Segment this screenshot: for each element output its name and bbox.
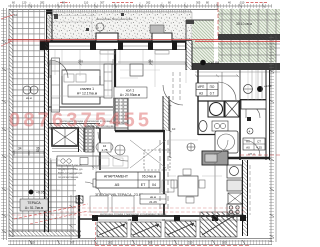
svg-text:К: К: [97, 26, 99, 30]
extension thin lines for density: [14, 8, 268, 190]
svg-text:А0: А0: [246, 146, 250, 150]
comb ticks under top edge: [48, 10, 192, 13]
svg-text:34: 34: [162, 218, 166, 222]
svg-text:АП 4: АП 4: [248, 152, 255, 156]
svg-text:неполиран борд настилка: неполиран борд настилка: [96, 17, 132, 21]
radiators under windows: [100, 51, 115, 55]
red line under stipple: [8, 39, 218, 41]
wardrobe bedroom: [52, 58, 60, 112]
svg-text:СТ: СТ: [257, 140, 261, 144]
red vertical: [217, 2, 219, 40]
svg-text:310: 310: [30, 241, 35, 245]
svg-text:305: 305: [148, 241, 153, 245]
bed bedroom1: [62, 70, 100, 104]
tiny dimension numbers: [14, 13, 176, 153]
terrace tile grid bottom-left extension: [45, 158, 76, 232]
svg-text:2.78: 2.78: [102, 148, 108, 152]
svg-text:310: 310: [188, 241, 193, 245]
svg-text:307: 307: [70, 241, 75, 245]
svg-text:21.26: 21.26: [149, 200, 157, 204]
svg-text:262: 262: [108, 241, 113, 245]
level dot: [29, 190, 34, 195]
kitchen counter dark: [202, 151, 228, 165]
stipple texture band top: [47, 12, 192, 39]
east wall vertical (hatched): [186, 41, 192, 70]
dark band below green: [190, 63, 280, 70]
bath walls: [197, 70, 199, 135]
dimension chain inside bedroom/living with slashes: [47, 63, 187, 158]
level dot top right: [200, 60, 206, 66]
svg-text:АПАРТАМЕНТ: АПАРТАМЕНТ: [104, 175, 129, 179]
svg-text:34: 34: [18, 147, 22, 151]
dimension chains inside: [48, 59, 239, 155]
svg-text:спалня 1: спалня 1: [80, 87, 94, 91]
svg-text:ТЕРАСА: ТЕРАСА: [27, 201, 41, 205]
west interior wall: [45, 41, 49, 232]
corner wall bottom-left of hatch: [78, 195, 80, 238]
svg-text:265: 265: [78, 60, 83, 64]
bottom wall columns: [92, 215, 246, 221]
svg-text:А= 51.7кв.м: А= 51.7кв.м: [25, 206, 44, 210]
wall above elevator: [48, 124, 100, 129]
svg-text:0876375455: 0876375455: [9, 110, 152, 132]
circle symbols right: [244, 85, 253, 94]
wall columns: [40, 41, 192, 50]
top ruler: [8, 5, 272, 7]
svg-text:160: 160: [222, 241, 227, 245]
stair treads right of elevator: [85, 126, 94, 152]
svg-text:0.7: 0.7: [210, 92, 215, 96]
svg-text:кв.м: кв.м: [150, 195, 156, 199]
dashed vertical lines: [160, 140, 168, 212]
stair core walls: [48, 106, 113, 108]
right ruler: [271, 35, 276, 242]
two storage rects bottom-center: [90, 196, 108, 212]
svg-text:10: 10: [172, 127, 176, 131]
svg-text:А= 20.93кв.м: А= 20.93кв.м: [120, 93, 141, 97]
wall between tile terrace and stipple band: [47, 9, 53, 42]
red dashes bottom: [60, 207, 246, 209]
top roof edge line: [9, 9, 218, 11]
window box 1: [96, 33, 118, 41]
svg-text:ПО: ПО: [210, 85, 215, 89]
diag X living: [130, 140, 166, 168]
АП table right: [243, 138, 265, 150]
right room extras: [241, 100, 266, 109]
corridor walls center: [115, 130, 165, 133]
wall between bedroom and living: [114, 49, 116, 96]
bench near dining: [96, 156, 128, 168]
red dashed line top: [112, 2, 133, 4]
right wing east wall: [266, 70, 270, 160]
elevator shaft: [52, 128, 84, 152]
kitchenette counter below elevator: [57, 156, 99, 166]
svg-text:кв.м: кв.м: [26, 96, 32, 100]
kitchen column: [227, 165, 242, 215]
svg-text:+0.05: +0.05: [36, 191, 45, 195]
svg-text:282: 282: [40, 1, 45, 5]
svg-text:95.24кв.м: 95.24кв.м: [142, 175, 156, 179]
door arcs: [50, 60, 68, 78]
svg-text:по изчисление: по изчисление: [58, 175, 79, 179]
svg-text:А5: А5: [115, 183, 120, 187]
extension lines to top ruler: [2, 2, 263, 231]
bottom outer hatched wall strip: [9, 231, 81, 236]
terrace label: [20, 199, 48, 211]
right corridor door arcs: [246, 104, 260, 118]
small rect living: [130, 64, 143, 76]
svg-text:А= 12.17кв.м: А= 12.17кв.м: [77, 92, 98, 96]
faint lines in stipple band: [48, 12, 96, 40]
svg-text:жилищна сграда с магазини и по: жилищна сграда с магазини и подземни гар…: [100, 212, 167, 216]
red diag bottom-left: [14, 204, 88, 219]
bath fixtures: [208, 101, 224, 117]
stipple band marks: [54, 13, 164, 33]
dimension arrows in tile terrace: [14, 151, 44, 156]
ИРП table: [196, 83, 218, 96]
svg-text:ИРП: ИРП: [198, 85, 205, 89]
svg-text:04: 04: [152, 183, 156, 187]
dining circles: [96, 143, 104, 151]
left ruler: [4, 8, 7, 240]
label bedroom1: [68, 85, 106, 97]
svg-text:78: 78: [128, 218, 132, 222]
svg-text:307: 307: [100, 1, 105, 5]
bottom ruler: [8, 241, 272, 245]
left outer hatched wall strip: [9, 9, 13, 237]
wardrobe right of bedroom: [104, 64, 112, 98]
svg-text:120: 120: [22, 1, 27, 5]
svg-text:4.25: 4.25: [256, 146, 262, 150]
svg-text:+9.60: +9.60: [264, 84, 272, 88]
svg-text:330: 330: [148, 60, 153, 64]
svg-text:305: 305: [196, 1, 201, 5]
svg-text:36: 36: [36, 147, 40, 151]
label living: [114, 87, 147, 98]
tiny gray annotation texts: [58, 17, 167, 216]
window box 2: [152, 33, 172, 41]
svg-text:хол 1: хол 1: [126, 89, 134, 93]
svg-text:ЕТ: ЕТ: [141, 183, 146, 187]
bathtub: [215, 131, 238, 153]
apartment stats table: [96, 172, 160, 188]
svg-text:310: 310: [240, 1, 245, 5]
svg-text:10: 10: [14, 13, 18, 17]
svg-text:262: 262: [146, 1, 151, 5]
north wall of apartment: [40, 42, 192, 50]
svg-text:А3: А3: [199, 92, 203, 96]
stair treads upper: [114, 98, 121, 124]
bottom wall of apartment: [96, 215, 244, 217]
svg-text:+10.08: +10.08: [208, 61, 219, 65]
table with chairs on terrace: [23, 86, 31, 94]
small table left bottom: [140, 194, 166, 204]
svg-text:110: 110: [84, 1, 89, 5]
green hatch terrace top-right: [192, 20, 214, 63]
terrace tile grid left: [12, 10, 45, 232]
dark band above green: [218, 34, 280, 40]
dining table group center: [178, 176, 198, 196]
